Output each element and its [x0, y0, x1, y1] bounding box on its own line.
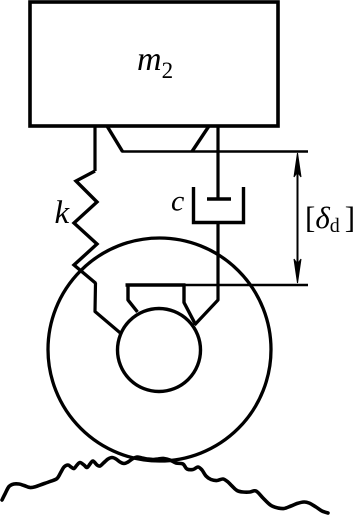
dimension line	[297, 158, 299, 278]
svg-text:m2: m2	[137, 41, 173, 83]
dimension arrowhead up	[294, 153, 301, 177]
damper piston	[207, 197, 231, 200]
hub bracket top edge	[126, 283, 186, 287]
damper lower rod to hub	[195, 224, 219, 325]
svg-text:[δd]: [δd]	[305, 200, 354, 237]
dimension arrowhead down	[294, 259, 301, 283]
bottom reference line	[126, 284, 308, 287]
hub bracket left wall and chamfer	[128, 285, 138, 312]
damper rod upper	[216, 126, 219, 199]
upper reference line (bracket bottom extended)	[122, 150, 309, 153]
spring hanger wire	[93, 126, 96, 171]
svg-text:k: k	[55, 195, 71, 231]
upper bracket right diagonal	[192, 126, 209, 152]
ground wavy line	[2, 457, 328, 513]
hub bracket right wall and chamfer	[184, 285, 196, 325]
svg-text:c: c	[171, 185, 184, 218]
wheel circle	[48, 238, 271, 461]
upper bracket left diagonal	[107, 126, 123, 152]
damper cup C	[194, 187, 244, 223]
spring lower wire to hub	[95, 283, 122, 334]
hub circle	[118, 309, 201, 392]
spring k zigzag	[74, 171, 97, 284]
mass m2 rectangle	[30, 2, 278, 126]
